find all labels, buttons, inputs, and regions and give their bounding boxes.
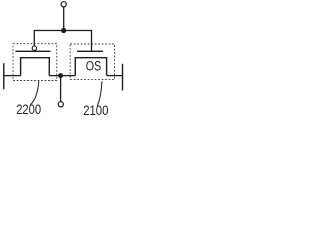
wire: left terminal to source of 2200 — [4, 75, 21, 77]
leader line for label 2100 — [97, 81, 102, 106]
wire: top terminal down to gate node — [63, 7, 65, 31]
terminal: bottom open circle — [58, 102, 63, 107]
dashed box 2100 (right transistor outline) — [70, 44, 114, 80]
gate bar of transistor 2100 — [77, 50, 103, 52]
svg-text:2100: 2100 — [83, 103, 108, 118]
channel of transistor 2200 — [21, 58, 50, 76]
leader line for label 2200 — [30, 81, 39, 105]
wire: gate bus from left gate up across and down to right gate — [34, 31, 91, 52]
svg-text:OS: OS — [86, 58, 101, 73]
wire: drain of 2200 to source of 2100 — [49, 75, 75, 77]
gate bar of transistor 2200 — [16, 50, 51, 52]
channel of transistor 2100 — [75, 58, 106, 76]
wire: drain of 2100 to right terminal — [107, 75, 123, 77]
dashed box 2200 (left transistor outline) — [13, 44, 57, 81]
terminal: right electrode bar — [122, 64, 124, 91]
node: output junction dot — [58, 73, 63, 78]
svg-text:2200: 2200 — [16, 102, 41, 117]
node: gate junction dot — [61, 28, 66, 33]
terminal: top open circle — [61, 2, 66, 7]
wire: junction down to bottom terminal — [60, 76, 62, 102]
terminal: left electrode bar — [3, 63, 5, 89]
gate bubble of transistor 2200 — [32, 46, 36, 50]
